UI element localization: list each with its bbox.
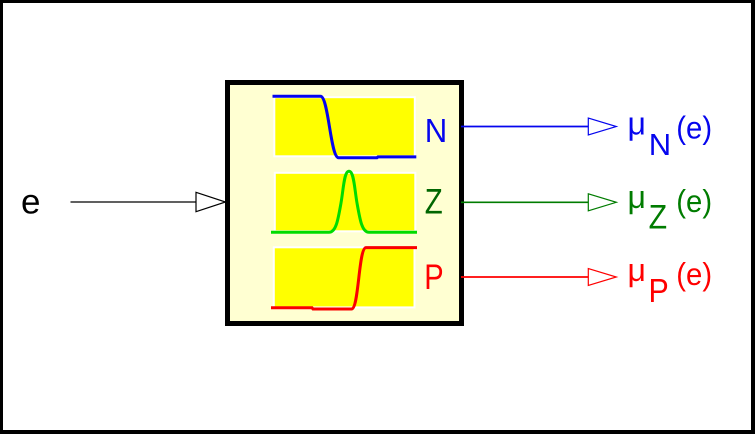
svg-text:N: N [425,112,447,149]
svg-text:(e): (e) [676,111,712,146]
svg-text:μ: μ [628,252,646,288]
svg-text:μ: μ [628,105,646,141]
svg-text:(e): (e) [676,257,712,292]
svg-text:P: P [649,272,669,309]
svg-text:P: P [424,257,443,296]
svg-text:Z: Z [425,182,443,221]
svg-text:Z: Z [649,198,667,236]
svg-text:e: e [21,183,40,222]
svg-text:μ: μ [628,179,646,215]
svg-text:(e): (e) [676,184,712,219]
svg-text:N: N [649,127,671,162]
